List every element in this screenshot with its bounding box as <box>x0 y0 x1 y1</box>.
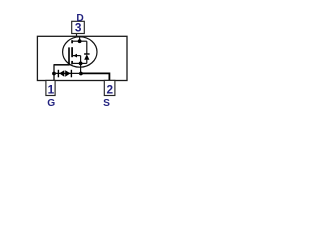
svg-text:S: S <box>103 98 110 109</box>
ESD diode D2 cathode bar <box>70 70 72 78</box>
transistor circle U1 <box>63 37 97 67</box>
ESD diode D1 triangle (points left) <box>59 70 64 77</box>
ESD diode D2 triangle (points right) <box>65 70 70 77</box>
channel body segment <box>71 47 73 57</box>
wire: body/source vertical <box>80 56 82 74</box>
node: gate/ESD junction dot <box>52 72 56 76</box>
body arrowhead (N-channel) <box>73 54 77 58</box>
wire: drain lead into circle <box>79 36 81 41</box>
body diode cathode bar <box>84 53 90 55</box>
wire: gate vertical to pin 1 <box>53 64 55 80</box>
wire: source rail to pin 2 <box>81 73 110 80</box>
svg-text:2: 2 <box>107 83 114 97</box>
svg-text:1: 1 <box>48 83 55 97</box>
ESD diode D1 cathode bar <box>57 70 59 78</box>
pin 2 box <box>104 80 115 95</box>
wire: ESD diode row <box>54 72 81 74</box>
channel drain segment <box>71 40 73 43</box>
body diode cathode wire <box>86 41 88 54</box>
body diode triangle <box>84 54 89 60</box>
wire: drain top inner <box>72 40 87 42</box>
pin 1 box <box>46 80 55 95</box>
body diode anode wire <box>86 59 88 63</box>
body arrow wire <box>73 55 81 57</box>
channel source segment <box>71 61 73 64</box>
pin 3 lead wire <box>76 34 78 38</box>
svg-text:G: G <box>47 98 55 109</box>
node: drain junction dot <box>78 39 82 43</box>
node: source/ESD junction dot <box>79 72 83 76</box>
gate electrode bar <box>68 47 70 65</box>
wire: gate horizontal <box>54 64 69 66</box>
node: source junction dot <box>79 62 83 66</box>
svg-text:D: D <box>76 13 83 24</box>
package outline <box>37 36 127 80</box>
wire: source bottom inner <box>72 62 87 64</box>
pin 3 box <box>72 21 85 33</box>
